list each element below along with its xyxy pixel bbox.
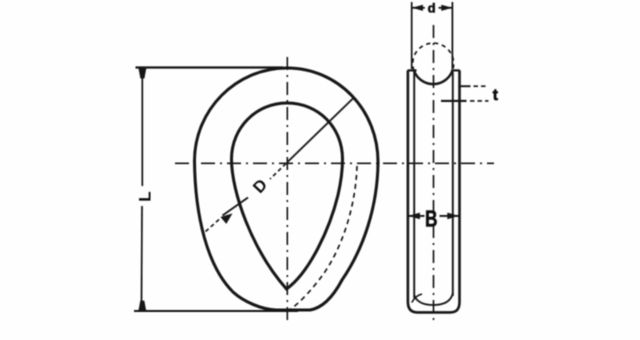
svg-text:t: t bbox=[493, 87, 498, 104]
svg-text:d: d bbox=[428, 1, 436, 16]
svg-text:B: B bbox=[425, 205, 438, 231]
svg-text:L: L bbox=[136, 191, 155, 201]
svg-text:D: D bbox=[250, 176, 271, 197]
